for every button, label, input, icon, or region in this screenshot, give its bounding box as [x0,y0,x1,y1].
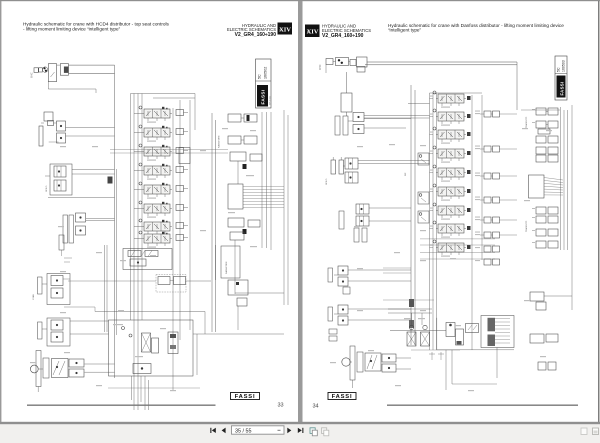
svg-text:SFILO: SFILO [326,178,328,185]
svg-text:5C: 5C [557,67,561,72]
svg-text:RADIATORE: RADIATORE [225,261,228,274]
svg-text:SFILO: SFILO [46,185,48,192]
svg-text:FASSI: FASSI [261,90,266,105]
svg-text:FASSI: FASSI [235,394,256,400]
svg-text:XIV: XIV [279,27,291,34]
svg-text:V2_GR4_160÷190: V2_GR4_160÷190 [235,32,277,38]
svg-text:V2_GR4_160÷190: V2_GR4_160÷190 [322,33,364,39]
svg-text:160502: 160502 [264,67,268,79]
svg-text:TRASDUTT.: TRASDUTT. [525,220,528,232]
svg-text:160503: 160503 [562,60,566,72]
svg-text:RADIATORE: RADIATORE [218,135,221,148]
svg-text:34: 34 [313,404,319,410]
svg-text:- lifting moment limiting devi: - lifting moment limiting device “intell… [23,27,121,32]
svg-text:5C: 5C [258,74,262,79]
svg-text:“intelligent type”: “intelligent type” [388,27,422,32]
svg-text:FASSI: FASSI [560,82,565,96]
svg-text:MHC: MHC [319,64,322,70]
svg-text:XIV: XIV [307,29,319,36]
svg-text:MHC: MHC [31,72,34,78]
svg-text:35 / 55: 35 / 55 [235,428,252,434]
svg-text:33: 33 [278,403,284,409]
svg-text:FASSI: FASSI [332,394,353,400]
svg-text:STAB.: STAB. [32,293,35,300]
svg-text:TRASDUTT.: TRASDUTT. [525,116,528,128]
svg-text:IMP.16.002: IMP.16.002 [270,96,272,105]
